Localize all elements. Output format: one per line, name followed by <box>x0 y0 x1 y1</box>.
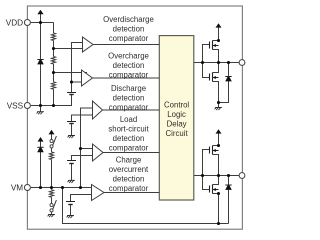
diode D4 cathode bar <box>225 184 231 186</box>
junction VSS rail / diode column <box>39 104 42 107</box>
wire VM switch column stem <box>51 134 53 139</box>
terminal pack minus (bottom cell) <box>239 173 245 179</box>
svg-text:VDD: VDD <box>6 18 23 27</box>
svg-text:Load: Load <box>120 115 137 124</box>
wire divider lead VDD to R1 <box>53 23 55 34</box>
svg-text:overcurrent: overcurrent <box>109 165 149 174</box>
op-amp comparator 2 (overcharge detection) <box>82 70 93 86</box>
wire comparator 3 bottom input to reference B2 <box>72 115 98 122</box>
wire comparator 1 output <box>93 44 159 46</box>
diode D2 cathode bar <box>37 146 43 148</box>
svg-text:Circuit: Circuit <box>166 129 189 138</box>
resistor R1 <box>51 33 55 41</box>
svg-text:Logic: Logic <box>167 110 186 119</box>
svg-text:VM: VM <box>11 183 23 192</box>
wire VM to resistor R5 <box>51 188 53 190</box>
wire transistor Q1 source to Q2 drain <box>213 50 219 73</box>
switch SW2 lever <box>53 200 57 210</box>
svg-text:detection: detection <box>113 25 145 34</box>
junction VM rail / sense column <box>79 186 82 189</box>
wire resistor R4 to VM rail <box>51 160 53 188</box>
wire reference B3 ground stub <box>71 164 73 181</box>
svg-text:Control: Control <box>164 101 189 110</box>
wire comparator 2 output <box>93 77 160 79</box>
reference B1 minus plate <box>69 94 73 96</box>
wire comparator 3 output <box>103 109 160 111</box>
terminal VM <box>24 185 30 191</box>
transistor Q1 body stub <box>213 45 219 47</box>
op-amp comparator 5 (charge overcurrent detection) <box>92 185 105 201</box>
svg-text:detection: detection <box>113 175 145 184</box>
arrow to pack terminal (top cell) <box>216 23 222 27</box>
diode D4 triangle <box>225 186 232 190</box>
wire diode D3 column top cell <box>219 63 229 103</box>
junction diode D3 top <box>227 61 230 64</box>
arrow to battery plus (VM switch column) <box>49 130 55 135</box>
junction VDD rail / arrow and diode column <box>39 21 42 24</box>
switch SW2 contact circles <box>50 203 53 206</box>
reference B2 plus plate <box>67 121 76 123</box>
wire VDD column with arrow stem and diode D1 branch to VSS <box>40 14 42 106</box>
wire control block to gate node line bottom cell <box>194 175 239 177</box>
svg-text:detection: detection <box>113 61 145 70</box>
transistor Q3 gate bar <box>209 147 211 154</box>
svg-text:Overcharge: Overcharge <box>108 52 149 61</box>
svg-text:VSS: VSS <box>7 101 24 110</box>
reference B3 minus plate <box>69 163 73 165</box>
wire switch SW2 to ground stub <box>51 212 53 215</box>
junction divider tap1 <box>52 47 55 50</box>
diode D2 triangle <box>37 148 44 152</box>
wire divider lead R3 to VSS <box>53 89 55 105</box>
reference B3 plus plate <box>67 160 76 162</box>
wire reference B4 ground stub <box>70 205 72 216</box>
arrow to battery plus (VM diode column) <box>38 137 44 142</box>
wire switch SW1 to resistor R4 <box>51 148 53 152</box>
junction midpoint bottom cell <box>217 174 220 177</box>
junction Q1 drain corner <box>217 39 220 42</box>
terminal VDD <box>24 20 30 26</box>
wire transistor Q1 drain to arrow stem <box>213 28 219 41</box>
ground (reference B3) <box>68 180 75 183</box>
transistor Q2 body stub <box>213 77 219 79</box>
svg-text:short-circuit: short-circuit <box>108 125 149 134</box>
terminal VSS <box>24 103 30 109</box>
svg-text:comparator: comparator <box>109 184 149 193</box>
ground (top cell source node) <box>215 108 222 111</box>
transistor Q3 body arrow <box>213 149 216 152</box>
ground (switch SW2) <box>48 215 55 218</box>
reference B4 minus plate <box>68 204 72 206</box>
transistor Q2 gate bar <box>209 74 211 81</box>
junction Q4 source corner <box>217 192 220 195</box>
wire VSS ground stub <box>40 106 42 112</box>
resistor R2 <box>51 57 55 65</box>
junction midpoint top cell <box>217 61 220 64</box>
junction reference node at comparator 2 input <box>70 80 73 83</box>
svg-text:comparator: comparator <box>109 143 149 152</box>
wire comparator 2 bottom input <box>72 81 87 83</box>
svg-text:Discharge: Discharge <box>111 84 146 93</box>
transistor Q1 gate bar <box>209 42 211 49</box>
junction VM rail / bottom return <box>61 186 64 189</box>
junction VSS rail / divider <box>52 104 55 107</box>
wire comparator 4 bottom input to reference B3 <box>72 156 98 161</box>
op-amp comparator 1 (overdischarge detection) <box>83 37 94 52</box>
terminal pack minus (top cell) <box>239 60 245 66</box>
wire gate drive top cell <box>203 45 210 78</box>
wire comparator 5 output <box>104 192 159 194</box>
resistor R4 <box>49 152 53 160</box>
IC boundary <box>27 6 242 229</box>
diode D3 cathode bar <box>225 76 231 78</box>
wire VM to output cell bottom return <box>63 188 229 224</box>
junction divider tap2 <box>52 71 55 74</box>
transistor Q4 gate bar <box>209 186 211 193</box>
wire transistor Q3 source to Q4 drain <box>213 155 219 185</box>
switch SW1 contact circles <box>50 139 53 142</box>
reference B2 minus plate <box>69 123 73 125</box>
wire divider lead R1 to tap1 to R2 <box>53 41 55 57</box>
diode D1 triangle <box>37 60 44 64</box>
transistor Q4 channel bar <box>212 185 214 194</box>
junction VM rail / diode column <box>39 186 42 189</box>
svg-text:detection: detection <box>113 134 145 143</box>
wire divider lead R2 to tap2 to R3 <box>53 64 55 82</box>
junction VM rail / switch column <box>50 186 53 189</box>
wire comparator 1 top input and reference column <box>72 43 87 93</box>
transistor Q2 body arrow <box>213 76 216 79</box>
transistor Q2 channel bar <box>212 73 214 82</box>
wire comparator 3 top input and VM sense column <box>81 108 98 188</box>
wire comparator 4 top input <box>81 148 98 150</box>
svg-text:Delay: Delay <box>167 119 187 128</box>
svg-text:comparator: comparator <box>109 70 149 79</box>
transistor Q4 body arrow <box>213 188 216 191</box>
ground (reference B4) <box>67 216 74 219</box>
ground (reference B2) <box>68 136 75 139</box>
diode D1 cathode bar <box>37 59 43 61</box>
wire transistor Q3 drain to arrow stem <box>213 134 219 146</box>
transistor Q4 body stub <box>213 189 219 191</box>
wire diode D4 column bottom cell <box>228 176 230 224</box>
wire transistor Q2 source to ground node <box>213 82 219 103</box>
junction VM sense / comparator 4 input <box>79 147 82 150</box>
arrow to battery plus (VDD) <box>37 10 43 15</box>
wire reference B2 ground stub <box>71 124 73 136</box>
arrow to pack terminal (bottom cell) <box>216 129 222 133</box>
junction gate node top cell <box>201 61 204 64</box>
wire VDD rail <box>31 22 54 24</box>
wire resistor R5 to switch SW2 <box>51 197 53 203</box>
resistor R3 <box>51 82 55 89</box>
wire comparator 4 output <box>103 152 159 154</box>
svg-text:comparator: comparator <box>109 34 149 43</box>
junction diode D4 top <box>227 174 230 177</box>
diode D3 triangle <box>225 77 232 81</box>
wire control block to gate node line top cell <box>194 62 239 64</box>
wire ground stub below Q2 <box>218 103 220 108</box>
wire tap2 to comparator 2 top input <box>54 72 88 74</box>
svg-text:comparator: comparator <box>109 103 149 112</box>
wire VM clamp diode column <box>40 142 42 188</box>
junction gate node bottom cell <box>201 174 204 177</box>
resistor R5 <box>49 190 53 198</box>
svg-text:Overdischarge: Overdischarge <box>103 15 154 24</box>
wire VM rail to comparator 5 top input <box>31 187 97 189</box>
reference B4 plus plate <box>66 201 75 203</box>
wire tap1 to comparator 1 inverting input <box>54 48 89 50</box>
svg-text:detection: detection <box>113 94 145 103</box>
transistor Q1 channel bar <box>212 41 214 50</box>
junction top cell ground node <box>217 101 220 104</box>
ground (VSS pin) <box>37 112 44 115</box>
transistor Q1 body arrow <box>213 44 216 47</box>
op-amp comparator 4 (load short-circuit detection) <box>93 144 104 161</box>
wire transistor Q4 source to bottom return <box>213 194 219 224</box>
junction bottom return / Q4 column <box>217 222 220 225</box>
wire gate drive bottom cell <box>203 150 210 190</box>
wire comparator 5 bottom input to reference B4 <box>71 195 97 202</box>
switch SW1 lever <box>53 136 57 146</box>
svg-text:Charge: Charge <box>116 156 142 165</box>
wire VSS rail to reference B1 <box>31 95 72 106</box>
transistor Q3 body stub <box>213 150 219 152</box>
junction Q3 drain corner <box>217 144 220 147</box>
reference B1 plus plate <box>67 92 76 94</box>
control logic delay circuit block U1 <box>159 36 194 200</box>
transistor Q3 channel bar <box>212 146 214 155</box>
op-amp comparator 3 (discharge detection) <box>93 101 103 119</box>
